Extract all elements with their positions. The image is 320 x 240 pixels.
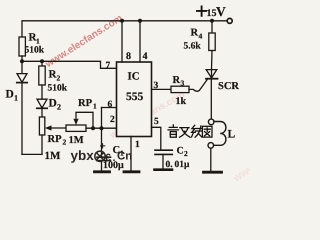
svg-text:510k: 510k [48,84,68,94]
diode D2 [37,98,61,118]
svg-text:R: R [191,28,199,39]
svg-text:4: 4 [143,51,148,62]
svg-text:C: C [177,146,184,157]
potentiometer RP1 [66,98,97,146]
svg-text:€: € [105,152,111,164]
resistor R3 [171,75,189,107]
pin 4 label [143,51,148,62]
wire R3 to SCR gate [189,79,208,91]
svg-text:2: 2 [184,149,188,158]
ground under pin 1 [124,170,139,173]
char xian [192,125,202,137]
svg-text:2: 2 [57,103,61,112]
terminal +15V circle [227,18,232,23]
ground under C1 [95,170,110,173]
svg-text:5: 5 [154,117,159,127]
label tuning-fork-coil (audio coil Chinese chars) [168,125,212,137]
svg-text:2: 2 [110,115,115,125]
svg-text:6: 6 [108,100,113,110]
pin 1 label [135,140,140,150]
svg-text:15: 15 [207,8,217,19]
transistor SCR [206,70,239,120]
pin 6 label [108,100,113,110]
svg-text:1: 1 [93,102,97,111]
wire bottom U connecting D1 and RP2 [22,153,42,155]
watermark dark ybx handwriting [71,148,95,163]
wire pin 8 [121,21,123,62]
inductor L tuning-fork coil [208,119,236,148]
svg-text:510k: 510k [25,46,45,56]
svg-text:0. 01μ: 0. 01μ [166,160,191,170]
svg-text:1M: 1M [69,135,84,146]
node A junction dot right [40,59,44,63]
watermark Cn text [105,151,132,165]
junction dot R4 rail [210,19,214,23]
watermark circle-x symbol [95,151,105,161]
svg-text:www: www [230,161,250,185]
junction dot pin4 rail [138,19,142,23]
svg-text:V: V [216,4,226,19]
wire pin 3 stub [152,88,172,90]
svg-text:2: 2 [57,74,61,83]
svg-text:7: 7 [106,61,111,71]
wire: +15V top rail [22,21,227,37]
watermark red diagonal www.elecfans.com upper-left [43,13,125,71]
pin 7 label [106,61,111,71]
svg-text:.: . [113,152,116,164]
char cha [180,128,191,138]
svg-text:SCR: SCR [218,81,239,92]
svg-text:RP: RP [78,98,93,109]
resistor R2 [39,61,68,98]
wire pin 4 [139,21,141,62]
junction dot pin2/C1 [100,126,104,130]
svg-text:1: 1 [14,94,18,103]
svg-text:5.6k: 5.6k [184,42,202,52]
svg-text:1k: 1k [176,96,187,107]
node A junction dot left [20,59,24,63]
svg-text:L: L [228,129,236,141]
resistor R4 [184,21,216,70]
svg-text:2: 2 [63,138,67,147]
svg-text:3: 3 [181,79,185,88]
watermark faint pink bottom-right corner [230,161,259,185]
svg-text:3: 3 [154,81,159,91]
potentiometer RP2 [39,117,66,162]
svg-text:D: D [6,89,14,101]
wire pin 5 stub to C2 [152,127,161,150]
capacitor C2 [155,146,190,170]
diode D1 [6,61,28,154]
watermark faint pink diagonal center-right [107,89,187,141]
char yin [168,125,178,130]
node A row wire [22,61,117,68]
label +15V [197,4,226,19]
char quan [202,126,212,137]
junction dot RP1 wiper [91,126,95,130]
wire pin 6 stub [102,107,117,109]
wire pin2 row [86,127,117,129]
svg-text:555: 555 [126,91,144,103]
pin 5 label [154,117,159,127]
op-amp/IC U1 555 box [117,62,152,137]
svg-text:4: 4 [199,32,203,41]
pin 2 label [110,115,115,125]
svg-text:D: D [49,98,57,110]
pin 3 label [154,81,159,91]
wire pin 1 to ground [130,137,132,172]
pin 8 label [126,51,131,62]
resistor R1 [19,32,45,62]
capacitor C1 electrolytic [97,141,124,172]
ground under C2 [155,168,173,171]
ground under coil [204,171,222,174]
svg-text:1: 1 [135,140,140,150]
svg-text:RP: RP [48,134,63,145]
junction dot pin8 rail [120,19,124,23]
svg-text:R: R [173,75,181,86]
svg-text:IC: IC [128,71,140,83]
svg-text:1M: 1M [45,150,62,162]
wire coil to ground [210,148,212,171]
svg-text:ybx: ybx [71,148,95,163]
wire pin6-to-C1 vertical [101,108,103,158]
svg-text:Cn: Cn [117,151,132,163]
svg-text:8: 8 [126,51,131,62]
svg-text:1: 1 [36,37,40,46]
